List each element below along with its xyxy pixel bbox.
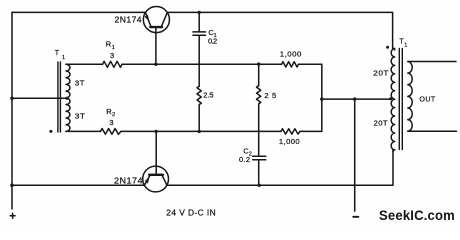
svg-text:3: 3 [110, 51, 115, 60]
wire right rail joining 1,000 resistors [321, 64, 323, 131]
terminal + [10, 213, 15, 218]
wire base row 1 (R1 row) [66, 63, 322, 65]
svg-text:SeekIC.com: SeekIC.com [379, 208, 455, 223]
wire T1 center tap [12, 97, 66, 99]
resistor R1 [103, 61, 123, 67]
wire base lead Q2 [155, 131, 157, 174]
svg-text:1,000: 1,000 [279, 137, 300, 146]
transformer T2 feed connector [393, 48, 395, 50]
wire base lead Q1 [155, 28, 157, 65]
transistor Q1 2N174 [143, 7, 169, 33]
polarity dot T2 [386, 46, 389, 49]
node junction branch B x row1 [257, 62, 260, 65]
svg-text:3T: 3T [75, 79, 85, 88]
terminal - [353, 216, 358, 218]
wire emitter rail bottom left [12, 184, 144, 186]
svg-text:1: 1 [404, 43, 407, 49]
svg-text:3T: 3T [75, 111, 86, 120]
node junction base Q2 x row2 [154, 130, 157, 133]
transformer T1 winding 3T+3T [66, 64, 70, 131]
svg-text:2N174: 2N174 [115, 16, 143, 25]
svg-text:3: 3 [109, 118, 114, 127]
svg-text:OUT: OUT [419, 96, 436, 103]
wire base row 2 (R2 row) [66, 130, 322, 132]
wire OUT bottom lead [408, 130, 457, 132]
svg-text:20T: 20T [373, 68, 389, 77]
capacitor C2 [253, 156, 266, 160]
svg-text:2.5: 2.5 [203, 91, 214, 100]
node junction base Q1 x row1 [154, 63, 157, 66]
node junction T1 center tap [65, 97, 68, 100]
wire left rail (+ supply) [11, 12, 13, 209]
svg-text:1: 1 [62, 55, 65, 61]
resistor 1,000 top [282, 62, 299, 67]
transformer T2 core [399, 49, 402, 150]
svg-text:1,000: 1,000 [280, 50, 302, 59]
resistor 2.5 left [197, 86, 201, 104]
svg-text:2: 2 [112, 112, 115, 118]
svg-text:2 5: 2 5 [264, 91, 276, 100]
wire OUT top lead [408, 61, 456, 63]
wire top rail left (emitter Q1 to + rail) [12, 11, 146, 13]
transistor Q2 2N174 [143, 166, 169, 192]
polarity dot T1 [49, 130, 52, 133]
node junction left rail x T1 tap [10, 97, 14, 101]
node junction tap x T2 primary [389, 97, 392, 100]
wire cross-coupling branch A (C1 + 2.5) [198, 12, 200, 131]
svg-text:20T: 20T [374, 118, 388, 127]
resistor 2.5 right [257, 86, 261, 104]
wire cross-coupling branch B (2.5 + C2) [258, 64, 260, 185]
transformer T2 primary 20T+20T [391, 49, 395, 150]
svg-text:2N174: 2N174 [114, 177, 143, 186]
svg-text:1: 1 [112, 45, 115, 51]
node junction left rail x emitter rail [10, 184, 14, 188]
node junction top rail x C1 branch [198, 11, 201, 14]
transformer T2 secondary winding [408, 62, 412, 132]
capacitor C1 [193, 32, 206, 35]
wire negative lead [354, 99, 356, 211]
svg-text:0.2: 0.2 [208, 36, 218, 45]
wire center-tap stub to T2 primary [322, 98, 391, 100]
svg-text:24 V D-C IN: 24 V D-C IN [166, 209, 216, 218]
svg-text:0.2: 0.2 [239, 155, 250, 164]
node junction right rail x tap stub [320, 97, 323, 100]
node junction negative lead x tap [353, 97, 356, 100]
node junction branch A x row2 [198, 130, 201, 133]
resistor R2 [101, 129, 122, 135]
transformer T1 core [58, 62, 61, 132]
svg-text:T: T [55, 50, 60, 57]
wire collector rail bottom (Q2 collector to T2 primary bottom) [167, 150, 393, 185]
wire top rail right (collector Q1 to T2 primary top) [167, 12, 392, 48]
transformer T2 primary bottom connector [393, 150, 395, 152]
resistor 1,000 bottom [281, 129, 300, 134]
node junction branch B x collector rail [258, 184, 261, 187]
